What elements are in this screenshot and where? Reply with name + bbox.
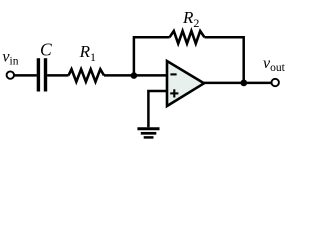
resistor R2 [170, 31, 205, 44]
wire feedback left vertical and top run to R2 [134, 37, 170, 75]
node A junction dot [131, 72, 138, 79]
resistor R1 [69, 69, 105, 82]
op-amp plus sign [170, 89, 178, 97]
wire non-inverting input to ground [148, 91, 167, 127]
svg-text:C: C [40, 40, 52, 60]
op-amp minus sign [170, 73, 176, 75]
wire terminal to capacitor [14, 74, 37, 77]
wire R2 to output node vertical [205, 37, 244, 83]
node vout terminal [272, 79, 279, 86]
wire R1 to op-amp inverting input [104, 74, 167, 77]
node output junction dot [240, 80, 247, 87]
wire op-amp output to terminal [204, 82, 272, 85]
node vin terminal [7, 71, 14, 78]
wire capacitor to R1 [47, 74, 68, 77]
capacitor C [38, 58, 45, 91]
ground [137, 129, 159, 138]
op-amp U1 [167, 61, 204, 106]
